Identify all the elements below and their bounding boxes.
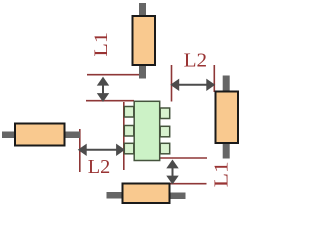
svg-text:L2: L2	[88, 156, 111, 178]
svg-text:L1: L1	[91, 32, 112, 57]
svg-text:L1: L1	[211, 161, 233, 187]
svg-text:L2: L2	[184, 49, 208, 71]
